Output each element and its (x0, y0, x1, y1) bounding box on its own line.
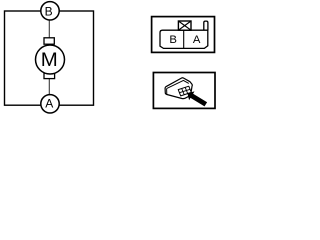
motor terminal block bottom (44, 73, 55, 78)
connector location box frame (153, 73, 215, 109)
svg-text:A: A (193, 34, 201, 46)
svg-text:M: M (41, 50, 58, 71)
connector 3d pin panel (178, 86, 191, 96)
connector 3d body silhouette (165, 78, 192, 99)
keyway cross line 2 (178, 21, 191, 30)
wire center vertical (48, 19, 50, 96)
connector 3d top face front edge (167, 80, 189, 88)
pin panel column tick 2 (185, 87, 188, 93)
locator arrow (187, 91, 207, 106)
svg-text:B: B (169, 34, 177, 46)
keyway cross line 1 (178, 21, 191, 30)
connector lock tab (204, 21, 208, 30)
connector keyway crossed box (178, 21, 191, 30)
node B terminal circle (41, 2, 59, 20)
connector cavity divider (183, 30, 185, 48)
pin panel column tick 1 (182, 89, 185, 95)
wire loop (5, 11, 94, 105)
svg-text:A: A (45, 97, 53, 111)
connector pinout box frame (152, 17, 215, 53)
motor M1 (36, 45, 65, 74)
connector 3d left end edge (166, 89, 168, 95)
svg-text:B: B (45, 4, 53, 18)
motor terminal block top (44, 38, 54, 44)
pin panel row line (180, 89, 191, 92)
connector housing outline (160, 30, 208, 48)
node A terminal circle (41, 95, 59, 113)
